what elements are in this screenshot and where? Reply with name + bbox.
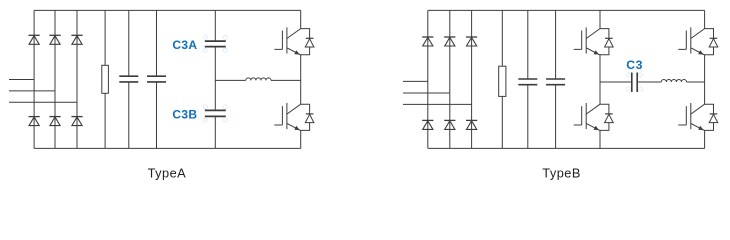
svg-text:C3A: C3A (172, 38, 197, 52)
svg-text:TypeA: TypeA (148, 165, 187, 180)
svg-text:C3B: C3B (172, 107, 197, 121)
svg-text:TypeB: TypeB (542, 165, 581, 180)
svg-text:C3: C3 (626, 58, 643, 72)
